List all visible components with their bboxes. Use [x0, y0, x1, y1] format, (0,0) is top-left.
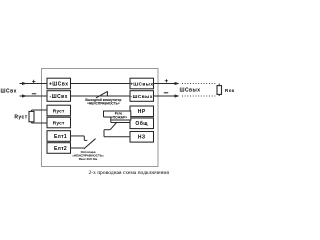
comparator label — [85, 98, 121, 105]
optocoupler label — [72, 150, 104, 161]
svg-text:-ШСвх: -ШСвх — [49, 94, 67, 100]
terminal -ШСвх — [47, 91, 71, 102]
wire -ШСвых output — [154, 94, 180, 97]
terminal +ШСвх — [47, 78, 71, 89]
svg-text:Общ: Общ — [135, 120, 148, 127]
svg-text:-ШСвых: -ШСвых — [131, 94, 153, 100]
svg-text:НЗ: НЗ — [138, 135, 146, 141]
svg-text:НР: НР — [138, 109, 146, 115]
device outline box — [42, 69, 159, 167]
svg-text:+: + — [164, 78, 168, 85]
svg-text:+ШСвых: +ШСвых — [130, 81, 154, 87]
resistor Rуст external — [29, 110, 47, 123]
svg-text:«ПОЖАР»: «ПОЖАР» — [111, 116, 128, 120]
minus mark output — [164, 92, 168, 94]
dotted wire +ШСвых — [182, 83, 217, 85]
relay contact blade — [110, 123, 116, 130]
svg-text:Rок: Rок — [225, 88, 235, 93]
wire +ШСвых output — [154, 82, 180, 85]
svg-text:Rуст: Rуст — [53, 108, 65, 114]
svg-text:«НЕИСПРАВНОСТЬ»: «НЕИСПРАВНОСТЬ» — [87, 101, 120, 105]
relay contact stub — [104, 130, 110, 137]
relay Реле ПОЖАР — [104, 111, 131, 123]
terminal Rуст lower — [47, 117, 71, 128]
terminal -ШСвых — [130, 91, 154, 102]
svg-text:Rуст: Rуст — [53, 120, 65, 126]
svg-text:2-х проводная схема подключени: 2-х проводная схема подключения — [89, 170, 170, 176]
resistor Rок terminating — [217, 84, 222, 97]
dotted wire -ШСвых — [182, 95, 217, 97]
terminal НЗ — [130, 132, 154, 143]
svg-text:+: + — [32, 78, 36, 85]
svg-text:+ШСвх: +ШСвх — [49, 81, 69, 87]
wire +ШС internal — [71, 83, 131, 85]
svg-text:Rуст: Rуст — [14, 114, 27, 120]
wire Елт1 to optocoupler — [71, 136, 88, 140]
terminal +ШСвых — [130, 78, 154, 89]
svg-text:Rвн=100 Ом: Rвн=100 Ом — [79, 157, 98, 161]
wire Елт2 to optocoupler — [71, 147, 84, 149]
terminal Общ — [130, 118, 154, 129]
switch optocoupler blade — [84, 139, 96, 149]
terminal Елт2 — [47, 143, 71, 154]
terminal НР — [130, 106, 154, 117]
svg-text:Елт1: Елт1 — [54, 134, 67, 140]
wire +ШСвх input left — [20, 82, 48, 85]
wire to НЗ — [104, 136, 130, 138]
wire relay to Общ — [111, 121, 130, 123]
wire -ШС internal — [71, 95, 131, 97]
switch output comparator — [96, 91, 107, 98]
svg-text:ШСвх: ШСвх — [1, 88, 17, 94]
svg-text:ШСвых: ШСвых — [179, 87, 200, 93]
terminal Елт1 — [47, 131, 71, 142]
wire -ШСвх input left — [20, 94, 48, 97]
svg-text:Елт2: Елт2 — [54, 146, 67, 152]
minus mark input — [32, 93, 36, 95]
terminal Rуст upper — [47, 105, 71, 116]
